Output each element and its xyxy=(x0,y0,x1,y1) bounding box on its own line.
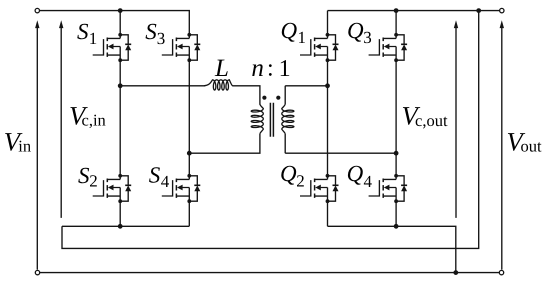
svg-text:S: S xyxy=(149,162,161,187)
svg-text:c,in: c,in xyxy=(82,110,106,129)
svg-text:S: S xyxy=(145,19,157,44)
svg-text:2: 2 xyxy=(296,172,305,191)
svg-text:3: 3 xyxy=(363,28,372,47)
svg-text:Q: Q xyxy=(347,161,364,186)
svg-text:4: 4 xyxy=(161,172,170,191)
svg-text:in: in xyxy=(18,136,31,155)
svg-text:3: 3 xyxy=(157,29,166,48)
svg-text:4: 4 xyxy=(364,172,373,191)
svg-text:out: out xyxy=(521,136,543,155)
svg-text:2: 2 xyxy=(89,172,98,191)
svg-text:1: 1 xyxy=(279,56,291,82)
svg-text:n: n xyxy=(251,55,264,82)
svg-text:1: 1 xyxy=(89,29,98,48)
svg-text:Q: Q xyxy=(280,161,297,186)
svg-text::: : xyxy=(267,55,274,81)
svg-text:Q: Q xyxy=(281,18,298,43)
svg-text:c,out: c,out xyxy=(415,111,448,130)
svg-text:L: L xyxy=(214,55,229,82)
svg-text:1: 1 xyxy=(298,28,307,47)
svg-text:S: S xyxy=(77,19,89,44)
svg-text:Q: Q xyxy=(347,18,364,43)
svg-text:S: S xyxy=(78,163,90,188)
